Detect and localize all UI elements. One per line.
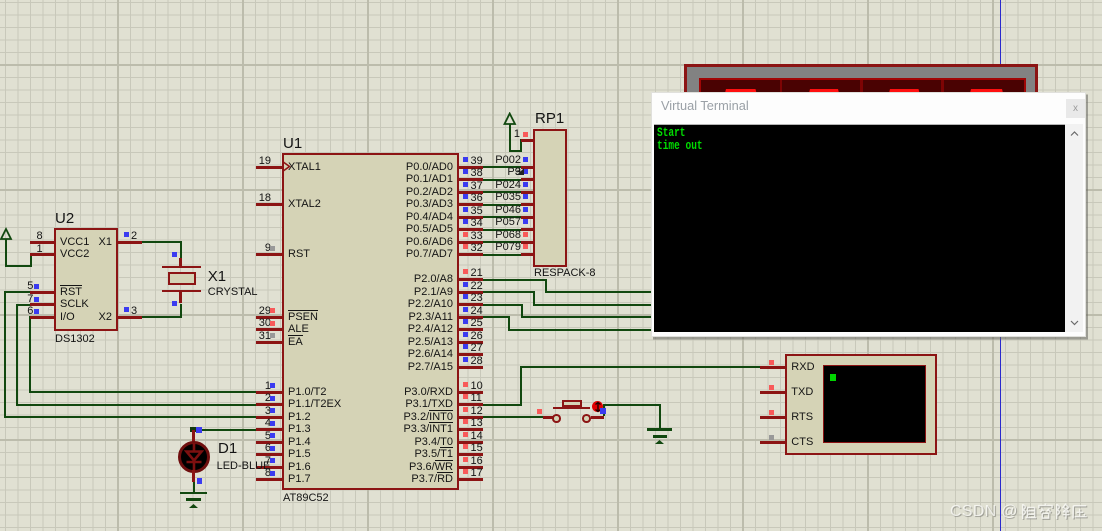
wire button to ground rise <box>603 405 605 417</box>
U1 pin 22 P2.1/A9 <box>459 291 483 294</box>
virtual terminal popup window <box>651 92 1086 337</box>
net label P046 <box>321 205 521 216</box>
window close button <box>1066 99 1085 118</box>
U1 pin 5 P1.4 <box>256 441 283 444</box>
wire U2 RST down left edge <box>4 291 6 418</box>
U1 pin 25 P2.4/A12 <box>459 328 483 331</box>
wire crystal bottom wire <box>180 304 182 319</box>
U1 pin 4 P1.3 <box>256 428 283 431</box>
wire TXD wire a <box>483 404 522 406</box>
wire button ground horizontal <box>603 404 661 406</box>
wire P0.6 to RP1 <box>483 241 522 243</box>
lit segments <box>723 89 759 97</box>
U1 pin 18 XTAL2 <box>256 203 283 206</box>
wire P2.2 wire c <box>521 316 653 318</box>
U1 pin 17 P3.7/RD <box>459 478 483 481</box>
terminal pin CTS <box>760 441 786 444</box>
U1 pin 15 P3.5/T1 <box>459 453 483 456</box>
net label P002 <box>321 155 521 166</box>
junction LED node <box>190 427 196 433</box>
watermark CSDN <box>950 503 1018 520</box>
power terminal (U2 VCC) <box>0 227 16 243</box>
wire TXD wire to RXD <box>520 366 760 368</box>
net label P068 <box>321 230 521 241</box>
wire RP1 power rise <box>520 139 522 152</box>
button actuator toggle <box>592 401 604 413</box>
terminal text <box>657 127 703 153</box>
U1 pin 3 P1.2 <box>256 416 283 419</box>
wire button ground drop <box>659 404 661 429</box>
wire P2.2 wire a <box>483 304 523 306</box>
wire U2 RST wire <box>4 291 30 293</box>
RP1 pin 8 <box>521 241 534 244</box>
U1 pin 14 P3.4/T0 <box>459 441 483 444</box>
U2 pin 5 RST <box>30 291 55 294</box>
terminal screen <box>654 124 1065 332</box>
RP1 pin 1 <box>521 139 534 142</box>
U1 pin 12 P3.2/INT0 <box>459 416 483 419</box>
wire RP1 power stem <box>509 124 511 152</box>
U1 pin 30 ALE <box>256 328 283 331</box>
7-segment display (4 digit, mostly hidden behind window) <box>684 64 1038 135</box>
wire P2.0 wire b <box>545 279 547 294</box>
wire power to VCC2 horizontal <box>5 265 31 267</box>
U1 pin 7 P1.6 <box>256 466 283 469</box>
wire P2.2 wire b <box>521 304 523 319</box>
U1 pin 1 P1.0/T2 <box>256 391 283 394</box>
U1 pin 24 P2.3/A11 <box>459 316 483 319</box>
U2 pin 1 VCC2 <box>30 253 55 256</box>
terminal pin RXD <box>760 366 786 369</box>
U1 pin 8 P1.7 <box>256 478 283 481</box>
U1 pin 13 P3.3/INT1 <box>459 428 483 431</box>
RP1 pin 7 <box>521 228 534 231</box>
net label P079 <box>321 242 521 253</box>
sheet border line <box>1000 0 1002 531</box>
wire RST to P1.2 <box>4 416 256 418</box>
wire INT0 to button <box>483 416 543 418</box>
U1 pin 11 P3.1/TXD <box>459 403 483 406</box>
wire power to VCC2 vertical <box>5 239 7 266</box>
wire P0.4 to RP1 <box>483 216 522 218</box>
wire P0.3 to RP1 <box>483 204 522 206</box>
U1 pin 26 P2.5/A13 <box>459 341 483 344</box>
ground (button) <box>647 428 673 431</box>
terminal pin RTS <box>760 416 786 419</box>
U1 pin 16 P3.6/WR <box>459 466 483 469</box>
wire P0.2 to RP1 <box>483 191 522 193</box>
button cap <box>562 400 582 407</box>
U1 pin 21 P2.0/A8 <box>459 278 483 281</box>
wire P0.7 to RP1 <box>483 254 522 256</box>
IC U1 AT89C52 <box>282 153 459 490</box>
U2 pin 7 SCLK <box>30 303 55 306</box>
U2 pin 2 X1 <box>118 241 142 244</box>
U2 pin 8 VCC1 <box>30 241 55 244</box>
wire X2 pin3 to crystal bottom <box>142 316 182 318</box>
wire P1.3 to LED <box>193 429 257 431</box>
junction at button output <box>600 408 606 414</box>
U1 pin 28 P2.7/A15 <box>459 366 483 369</box>
U1 pin 29 PSEN <box>256 316 283 319</box>
wire P2.3 wire c <box>508 329 652 331</box>
U1 pin 6 P1.5 <box>256 453 283 456</box>
RP1 pin 2 <box>521 166 534 169</box>
net label P035 <box>321 192 521 203</box>
net label P057 <box>321 217 521 228</box>
wire U2 SCLK wire <box>16 304 30 306</box>
button state square <box>537 409 542 414</box>
U1 pin 9 RST <box>256 253 283 256</box>
RP1 pin 9 <box>521 253 534 256</box>
wire U2 I/O down <box>29 316 31 393</box>
U1 pin 38 P0.1/AD1 <box>459 178 483 181</box>
U1 pin 36 P0.3/AD3 <box>459 203 483 206</box>
IC U2 DS1302 <box>54 228 118 331</box>
wire P2.0 wire a <box>481 279 547 281</box>
crystal X1 <box>179 258 182 267</box>
virtual terminal component (schematic part) <box>785 354 937 455</box>
terminal cursor <box>830 374 836 381</box>
U1 pin 2 P1.1/T2EX <box>256 403 283 406</box>
wire SCLK to P1.1 <box>16 404 257 406</box>
wire P0.0 to RP1 <box>483 166 522 168</box>
U1 pin 23 P2.2/A10 <box>459 303 483 306</box>
net label P013 (overlapping glyphs) <box>321 167 521 178</box>
wire RP1 power horizontal <box>509 150 522 152</box>
wire P0.1 to RP1 <box>483 179 522 181</box>
U1 pin 27 P2.6/A14 <box>459 353 483 356</box>
wire P2.1 wire b <box>533 291 535 306</box>
wire LED to ground <box>193 482 195 492</box>
U1 pin 39 P0.0/AD0 <box>459 166 483 169</box>
power terminal (RP1 common) <box>503 112 519 128</box>
U2 pin 6 I/O <box>30 316 55 319</box>
terminal pin TXD <box>760 391 786 394</box>
wire power to VCC2 rise <box>30 255 32 268</box>
U1 pin 35 P0.4/AD4 <box>459 216 483 219</box>
U1 pin 10 P3.0/RXD <box>459 391 483 394</box>
LED D1 LED-BLUE <box>196 427 202 433</box>
wire TXD wire b <box>520 366 522 405</box>
RP1 pin 4 <box>521 191 534 194</box>
wire P2.3 wire b <box>508 316 510 331</box>
resistor pack RP1 RESPACK-8 <box>533 129 567 267</box>
net label P024 <box>321 180 521 191</box>
wire P2.1 wire a <box>483 291 535 293</box>
U1 XTAL1 clock arrow <box>282 161 292 173</box>
push button <box>543 416 553 419</box>
wire X1 pin2 to crystal top <box>142 241 182 243</box>
RP1 pin 6 <box>521 216 534 219</box>
wire P2.1 wire c <box>533 304 653 306</box>
wire crystal top wire <box>180 241 182 258</box>
wire P2.0 wire c <box>545 291 652 293</box>
U1 pin 33 P0.6/AD6 <box>459 241 483 244</box>
U1 pin 31 EA <box>256 341 283 344</box>
scrollbar <box>1065 124 1083 332</box>
U2 pin 3 X2 <box>118 316 142 319</box>
wire I/O to P1.0 <box>29 391 257 393</box>
wire U2 SCLK down <box>16 304 18 406</box>
U1 pin 34 P0.5/AD5 <box>459 228 483 231</box>
wire P0.5 to RP1 <box>483 229 522 231</box>
RP1 pin 5 <box>521 203 534 206</box>
U1 pin 37 P0.2/AD2 <box>459 191 483 194</box>
RP1 pin 3 <box>521 178 534 181</box>
U1 pin 32 P0.7/AD7 <box>459 253 483 256</box>
U1 pin 19 XTAL1 <box>256 166 283 169</box>
wire P2.3 wire a <box>483 316 510 318</box>
window title <box>661 100 749 113</box>
